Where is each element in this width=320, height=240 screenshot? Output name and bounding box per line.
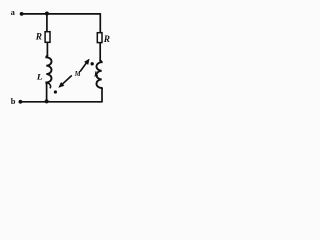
svg-text:R: R <box>103 35 110 45</box>
svg-text:L: L <box>93 71 99 79</box>
wire right branch lower segment <box>101 88 103 102</box>
wire top horizontal a to right branch <box>22 13 101 15</box>
wire right branch upper segment <box>99 14 101 32</box>
svg-text:b: b <box>11 96 16 106</box>
node b terminal dot <box>19 100 23 104</box>
svg-text:M: M <box>74 71 82 78</box>
polarity dot for L1 <box>54 90 57 93</box>
wire right branch between resistor and inductor <box>99 43 101 60</box>
wire left branch between resistor and inductor <box>46 43 48 56</box>
wire left branch lower segment <box>46 84 48 102</box>
mutual coupling arrow lower (points to L1 dot) <box>59 76 72 88</box>
mutual coupling arrow upper (points to L2 dot) <box>81 59 90 71</box>
svg-text:R: R <box>35 33 42 43</box>
polarity dot for L2 <box>91 62 94 65</box>
wire bottom horizontal b to right branch <box>20 101 102 103</box>
wire left branch upper segment <box>46 14 48 31</box>
junction top (left branch / top wire) <box>45 12 49 16</box>
inductor L2 (right) coil <box>96 61 102 89</box>
svg-text:a: a <box>11 7 16 17</box>
svg-text:L: L <box>36 72 43 82</box>
resistor R2 (right) body <box>97 33 102 43</box>
junction bottom (left branch / bottom wire) <box>45 99 49 103</box>
inductor L1 coil bottom tail curl <box>47 83 51 88</box>
inductor L1 (left) coil <box>46 56 51 84</box>
node a terminal dot <box>20 12 24 16</box>
resistor R1 (left) body <box>45 32 50 43</box>
